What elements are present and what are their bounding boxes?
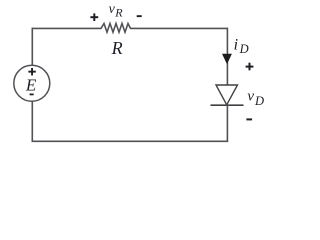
wire left lower: [31, 101, 33, 142]
diode D triangle: [216, 85, 238, 105]
svg-text:i: i: [234, 36, 238, 53]
wire right upper: [226, 28, 228, 86]
svg-text:R: R: [111, 38, 123, 58]
label minus (resistor right): [137, 15, 142, 17]
voltage source E circle: [14, 65, 50, 101]
wire bottom: [32, 140, 229, 142]
wire right lower: [226, 105, 228, 142]
label plus (source top): [28, 68, 35, 75]
current arrow iD (filled): [222, 54, 232, 64]
label plus (diode top): [246, 63, 254, 71]
svg-text:D: D: [254, 94, 264, 108]
svg-text:E: E: [25, 76, 37, 95]
label plus (resistor left): [90, 13, 98, 21]
label minus (diode bottom): [246, 118, 252, 120]
svg-text:R: R: [114, 5, 123, 19]
svg-text:v: v: [247, 88, 254, 104]
label minus (source bottom): [30, 94, 34, 96]
wire left upper: [31, 28, 33, 66]
diode D cathode bar: [211, 104, 244, 106]
wire top with resistor zigzag: [32, 24, 227, 33]
svg-text:D: D: [239, 42, 249, 56]
